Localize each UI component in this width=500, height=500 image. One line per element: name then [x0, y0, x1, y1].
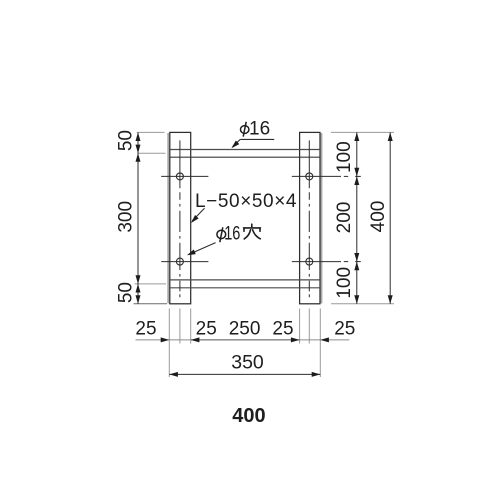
350 arrow right	[312, 372, 321, 377]
hole top-right	[306, 173, 313, 180]
label phi16 symbol	[241, 122, 249, 137]
left extension line bar top	[137, 131, 165, 133]
right inner arrow up at bar top	[354, 132, 359, 141]
right outer arrow up	[388, 132, 393, 141]
left dim arrow up at bar top	[136, 132, 141, 141]
leader phi16 arrow	[230, 141, 240, 151]
hole bottom-left	[176, 258, 183, 265]
right bar vertical center line	[308, 140, 310, 297]
bottom hole row center line left	[161, 261, 208, 263]
svg-text:350: 350	[231, 352, 264, 374]
bottom extension line bar right outer	[319, 309, 321, 378]
right inner arrows at bottom hole	[354, 253, 359, 262]
svg-text:25: 25	[196, 319, 217, 340]
label phi16 hole symbol	[217, 227, 226, 242]
right angle bar L-50x50x4	[300, 132, 320, 303]
bottom hole row tick at dim line	[355, 261, 361, 263]
left dimension line	[137, 132, 139, 303]
350 arrow left	[169, 372, 178, 377]
leader phi16 underline	[240, 138, 274, 140]
left angle bar L-50x50x4	[170, 132, 191, 303]
top hole row tick at dim line	[355, 175, 361, 177]
hole top-left	[176, 173, 183, 180]
right inner dimension line	[356, 132, 358, 303]
bottom rod phi16 lower line	[170, 287, 320, 289]
right angle bar outer gray edge	[321, 133, 323, 303]
svg-text:300: 300	[116, 201, 137, 233]
bottom rod phi16 upper line	[170, 279, 320, 281]
top rod phi16 upper line	[170, 149, 320, 151]
top hole row center line left	[161, 175, 208, 177]
right outer arrow down	[388, 295, 393, 304]
svg-text:50: 50	[116, 130, 137, 151]
svg-text:25: 25	[334, 319, 355, 340]
svg-text:25: 25	[135, 319, 156, 340]
right outer dimension line 400	[389, 132, 391, 303]
svg-text:400: 400	[368, 201, 389, 233]
left dim arrows at top rod center	[136, 145, 141, 154]
bottom hole row center line right	[292, 261, 341, 263]
right inner arrows at top hole	[354, 168, 359, 177]
svg-text:L−50×50×4: L−50×50×4	[195, 191, 297, 212]
kanji hole (ana) drawn	[244, 224, 261, 239]
bottom extension line bar left outer	[168, 309, 170, 378]
left extension line top rod center	[138, 152, 166, 154]
bottom extension line right hole	[308, 309, 310, 344]
hole bottom-right	[306, 258, 313, 265]
top hole row dash	[344, 175, 348, 177]
left extension line bottom rod center	[135, 283, 167, 285]
bottom row arrow at bar left outer	[161, 337, 170, 342]
left dim arrow down at bar bottom	[136, 295, 141, 304]
left dim arrows at bottom rod center	[136, 275, 141, 284]
leader L-50x50x4 slant	[192, 208, 204, 221]
bottom hole row dash	[344, 261, 348, 263]
right inner arrow down at bar bottom	[354, 295, 359, 304]
leader phi16 hole slant	[189, 243, 215, 255]
bottom row arrow 250 left	[191, 337, 200, 342]
leader phi16 hole arrow	[186, 250, 196, 258]
right extension line bar top	[331, 131, 394, 133]
bottom extension line left hole	[179, 309, 181, 344]
svg-text:200: 200	[334, 202, 355, 234]
top rod phi16 lower line	[170, 156, 320, 158]
svg-text:16: 16	[224, 223, 240, 244]
bottom extension line left bar inner	[190, 309, 192, 344]
leader L-50x50x4 arrow	[189, 215, 199, 225]
bottom dim row line right tail	[300, 339, 350, 341]
left bar vertical center line	[179, 140, 181, 297]
top hole row center line right	[292, 175, 341, 177]
svg-text:100: 100	[334, 267, 355, 299]
bottom dim row 250 line	[191, 339, 300, 341]
svg-text:50: 50	[116, 282, 137, 303]
leader phi16 slant	[233, 139, 241, 146]
right extension line bar bottom	[331, 303, 394, 305]
svg-text:25: 25	[272, 319, 293, 340]
left extension line bar bottom	[134, 303, 168, 305]
bottom extension line right bar inner	[299, 309, 301, 344]
svg-text:100: 100	[334, 141, 355, 173]
dimension line 350	[169, 373, 320, 375]
bottom dim row line left tail	[136, 339, 191, 341]
svg-text:250: 250	[229, 319, 261, 340]
svg-text:400: 400	[232, 405, 265, 427]
bottom row arrow 250 right	[291, 337, 300, 342]
bottom row arrow at bar right outer	[320, 337, 329, 342]
svg-text:16: 16	[249, 119, 270, 140]
left angle bar outer gray edge	[167, 133, 169, 303]
